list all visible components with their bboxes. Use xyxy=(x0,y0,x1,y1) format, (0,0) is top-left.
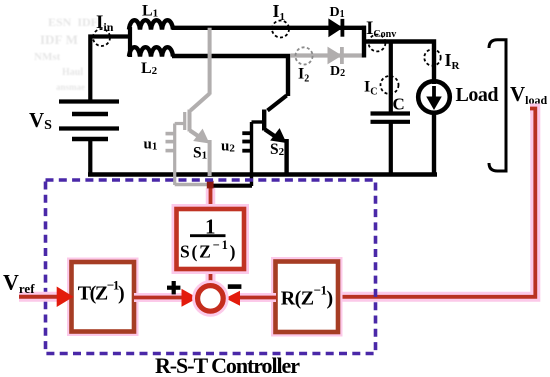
svg-text:VS: VS xyxy=(29,108,52,133)
block R(Z^-1) glow xyxy=(276,262,339,333)
summing junction glow xyxy=(198,286,224,312)
wire V_ref input glow xyxy=(19,292,57,302)
svg-text:D1: D1 xyxy=(330,5,345,20)
wire output rail to load corner xyxy=(364,42,434,85)
wire T to sum xyxy=(134,296,184,300)
summing junction xyxy=(198,286,224,312)
transistor S1 gray MOSFET xyxy=(166,28,210,185)
svg-text:S1: S1 xyxy=(193,145,207,162)
wire battery positive lead and input top wire xyxy=(90,37,130,102)
transistor S2 black IGBT xyxy=(242,96,286,187)
block R(Z^-1) xyxy=(276,262,339,333)
wire R to sum glow xyxy=(238,293,276,302)
faint watermark ghost xyxy=(34,15,98,92)
wire vertical joining L1/L2 inputs xyxy=(128,27,132,57)
svg-text:Vload: Vload xyxy=(510,82,548,107)
svg-text:C: C xyxy=(393,95,405,114)
wire T to sum glow xyxy=(134,293,183,302)
wire output node connector xyxy=(362,26,366,58)
controller dashed box xyxy=(46,180,376,354)
diode D1 xyxy=(329,19,344,37)
svg-text:IDF M: IDF M xyxy=(40,32,78,47)
wire black gate lead junction to S2 xyxy=(210,184,252,188)
battery V_S xyxy=(59,102,119,140)
wire red control line glow xyxy=(206,188,216,210)
svg-text:I2: I2 xyxy=(298,66,309,85)
svg-text:ESN IDF: ESN IDF xyxy=(48,15,98,29)
current sensor I_C xyxy=(381,76,399,94)
wire L2 rail to S2 corner xyxy=(172,56,288,96)
wire gray rail through D2 xyxy=(291,53,365,57)
wire gray gate lead S1 to junction xyxy=(175,183,211,187)
svg-text:S2: S2 xyxy=(270,141,285,158)
node gate junction xyxy=(207,181,214,189)
current sensor I_Conv xyxy=(369,35,386,52)
svg-text:D2: D2 xyxy=(330,64,345,79)
block 1/S(Z^-1) xyxy=(177,209,245,269)
block 1/S(Z^-1) glow xyxy=(177,209,245,269)
capacitor C bottom leg xyxy=(389,122,393,175)
diode D2 gray xyxy=(328,47,344,64)
svg-text:L2: L2 xyxy=(141,60,158,77)
svg-text:NMst: NMst xyxy=(34,51,61,63)
arrow into sum from right xyxy=(225,291,240,306)
wire R to sum xyxy=(238,296,277,300)
inductor L1 xyxy=(129,20,173,29)
wire battery negative lead xyxy=(88,139,92,176)
svg-text:IC: IC xyxy=(364,79,377,98)
label minus xyxy=(228,284,242,289)
wire feedback V_load to R block xyxy=(338,109,535,297)
svg-text:Load: Load xyxy=(456,84,499,106)
svg-text:I1: I1 xyxy=(273,1,286,23)
current sensor I_R xyxy=(424,49,440,65)
svg-text:IConv: IConv xyxy=(366,18,396,40)
load current source xyxy=(418,81,450,113)
wire top rail after L1 to D1 node xyxy=(172,26,366,30)
current sensor I_in xyxy=(93,29,110,46)
current sensor I2 gray xyxy=(295,47,312,64)
wire V_ref input xyxy=(19,295,58,299)
wire feedback V_load to R block (pink glow) xyxy=(338,109,535,297)
svg-text:T(Z−1): T(Z−1) xyxy=(78,278,125,305)
label plus xyxy=(167,281,180,294)
svg-text:Haul: Haul xyxy=(62,67,83,78)
svg-text:L1: L1 xyxy=(142,3,158,20)
current sensor I1 xyxy=(272,21,289,38)
svg-text:IR: IR xyxy=(445,50,461,72)
capacitor C plates xyxy=(371,111,411,115)
svg-text:u2: u2 xyxy=(221,139,235,155)
wire sum to 1/S block glow xyxy=(206,267,216,286)
wire bottom ground rail xyxy=(88,172,437,177)
wire sum to 1/S block xyxy=(209,267,213,286)
svg-text:ansmae: ansmae xyxy=(56,82,85,92)
arrow into sum from left xyxy=(182,289,198,307)
svg-text:R-S-T Controller: R-S-T Controller xyxy=(155,353,300,377)
capacitor C top leg xyxy=(389,42,393,113)
inductor L2 xyxy=(129,47,173,56)
svg-text:u1: u1 xyxy=(144,137,158,153)
bracket V_load xyxy=(489,40,506,171)
svg-text:Iin: Iin xyxy=(96,12,114,34)
block T(Z^-1) xyxy=(72,262,135,332)
block T(Z^-1) glow xyxy=(72,262,135,332)
label 1 over S(Z^-1) xyxy=(180,215,236,262)
wire load bottom leg xyxy=(432,113,436,177)
arrow into T block xyxy=(57,287,74,308)
svg-text:Vref: Vref xyxy=(3,270,35,297)
wire red control line up from controller xyxy=(209,182,213,210)
